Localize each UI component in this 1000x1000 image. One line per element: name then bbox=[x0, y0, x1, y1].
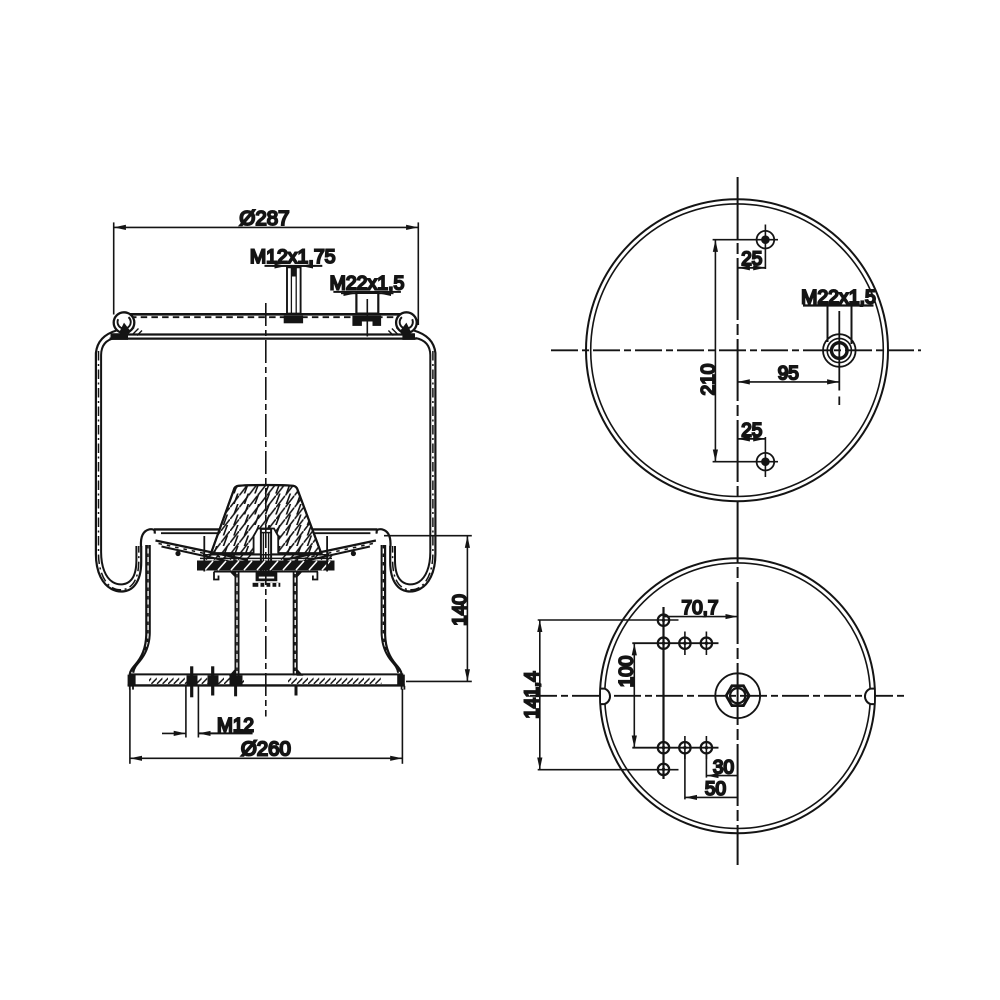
bottom view: rim notch left bbox=[601, 689, 610, 705]
side view: top plate bbox=[110, 314, 417, 338]
bottom view: hole row line lower bbox=[632, 747, 718, 749]
bottom view: dimension 30 bbox=[706, 753, 737, 778]
svg-text:30: 30 bbox=[713, 757, 734, 778]
side view: bolt nut bbox=[253, 572, 281, 587]
top view: plate outer circle bbox=[586, 199, 888, 501]
side view: dimension D287 bbox=[114, 207, 419, 325]
side view: rubber bumper bbox=[211, 485, 321, 553]
side view: piston rim right bbox=[269, 529, 390, 565]
bottom view: hole B2 bbox=[679, 736, 690, 759]
bottom view: dimension 70,7 bbox=[664, 598, 738, 619]
side view: bead ring left bbox=[111, 312, 143, 340]
bottom view: centerline horizontal bbox=[530, 695, 908, 697]
bottom view: hole A4 bbox=[658, 764, 669, 775]
bottom view: hole B1 bbox=[679, 632, 690, 656]
top view: plate inner circle bbox=[591, 204, 884, 497]
svg-text:Ø260: Ø260 bbox=[241, 738, 291, 761]
side view: piston skirt right bbox=[382, 545, 402, 675]
side view: label M12x1,75 bbox=[250, 246, 336, 268]
top view: dimension 25 upper bbox=[738, 249, 766, 270]
side view: piston clamp plate bbox=[197, 536, 335, 580]
side view: rib left bbox=[229, 572, 239, 676]
bottom view: hole A2 bbox=[658, 638, 669, 649]
top view: dimension 25 lower bbox=[738, 420, 766, 441]
bottom view: dimension 141,4 bbox=[522, 620, 679, 770]
svg-text:25: 25 bbox=[741, 249, 762, 270]
bottom view: dimension 50 bbox=[685, 753, 738, 800]
bottom view: piston outer circle bbox=[600, 558, 875, 833]
side view: base plate bbox=[128, 674, 405, 689]
top view: centerline horizontal bbox=[551, 349, 921, 351]
bottom view: hole row line upper bbox=[632, 642, 718, 644]
top view: stud hole upper bbox=[713, 225, 778, 270]
svg-text:141,4: 141,4 bbox=[522, 671, 543, 719]
side view: bellows wall left bbox=[96, 331, 141, 592]
bottom view: hole C1 bbox=[701, 632, 712, 656]
svg-text:100: 100 bbox=[616, 656, 637, 688]
top view: dimension 95 bbox=[738, 363, 840, 384]
top view: label M22x1,5 bbox=[801, 286, 876, 344]
bottom view: center hex bolt bbox=[715, 673, 760, 718]
top view: center axis vertical bbox=[737, 177, 739, 865]
svg-text:M12: M12 bbox=[217, 715, 254, 736]
side view: bead ring right bbox=[388, 312, 416, 340]
top view: dimension 210 bbox=[699, 240, 720, 462]
svg-text:70,7: 70,7 bbox=[682, 598, 719, 619]
bottom view: dimension 100 bbox=[616, 643, 637, 748]
svg-text:50: 50 bbox=[705, 779, 726, 800]
side view: dimension M12 bbox=[162, 685, 254, 738]
side view: piston rim left bbox=[141, 529, 262, 565]
svg-text:Ø287: Ø287 bbox=[239, 207, 289, 230]
svg-text:140: 140 bbox=[450, 594, 471, 626]
side view: bumper cavity and bolt bbox=[254, 529, 279, 573]
side view: stud M12 bbox=[284, 267, 303, 323]
bottom view: hole A1 bbox=[658, 615, 669, 626]
top view: stud hole lower bbox=[713, 437, 778, 477]
side view: bottom studs M12 bbox=[192, 666, 296, 697]
side view: dimension 140 bbox=[384, 536, 472, 682]
top view: air port M22 hole bbox=[823, 311, 856, 405]
side view: piston skirt left bbox=[130, 545, 150, 675]
bottom view: rim notch right bbox=[865, 689, 874, 705]
bottom view: hole C2 bbox=[701, 736, 712, 759]
side view: centerline axis bbox=[265, 303, 267, 717]
side view: label M22x1,5 bbox=[330, 273, 405, 295]
bottom view: bolt column line bbox=[662, 607, 664, 779]
svg-text:95: 95 bbox=[778, 363, 799, 384]
side view: bellows wall right bbox=[390, 331, 435, 592]
bottom view: hole A3 bbox=[658, 742, 669, 753]
side view: air port M22 boss bbox=[352, 293, 381, 337]
bottom view: piston inner circle bbox=[605, 563, 871, 829]
side view: dimension D260 bbox=[130, 689, 403, 764]
side view: rib right bbox=[294, 572, 304, 676]
svg-text:210: 210 bbox=[699, 364, 720, 396]
